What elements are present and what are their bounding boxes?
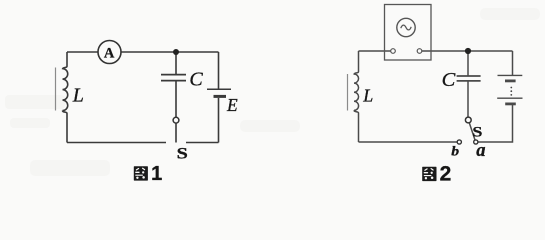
svg-text:S: S	[472, 123, 482, 140]
svg-text:S: S	[177, 145, 188, 162]
svg-text:2: 2	[440, 163, 452, 186]
svg-text:b: b	[451, 144, 459, 159]
svg-text:C: C	[189, 68, 203, 90]
svg-text:L: L	[362, 85, 373, 105]
svg-text:a: a	[476, 141, 485, 161]
svg-text:E: E	[226, 95, 238, 115]
svg-text:A: A	[104, 45, 115, 61]
svg-text:1: 1	[151, 163, 162, 185]
svg-text:C: C	[442, 69, 456, 91]
svg-text:L: L	[72, 85, 84, 107]
